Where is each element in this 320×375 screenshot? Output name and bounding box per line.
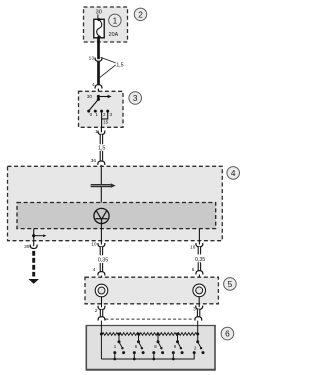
fuse F 20A body (94, 19, 104, 38)
connector 4 (dome) (95, 85, 102, 89)
cable 10 to panel upper (100, 247, 104, 255)
wire into blower motor (100, 167, 102, 209)
contact 3 (106, 110, 109, 113)
fresh air blower box (item 4) (8, 166, 223, 240)
node resistor right end (196, 333, 199, 336)
callout 3 (129, 92, 142, 105)
svg-text:30: 30 (96, 10, 102, 16)
wire into panel left (100, 276, 102, 285)
svg-text:10: 10 (91, 242, 97, 248)
wire connector 4 into switch box (97, 89, 99, 97)
node fuse top (97, 18, 100, 21)
blower motor assembly (inner box) (17, 203, 216, 229)
bulb L left (95, 284, 108, 297)
resistor element zigzag (101, 333, 197, 336)
connector 3 (cup) (196, 306, 203, 310)
contact 2 (100, 110, 103, 113)
series resistor / switch unit box (item 6) (86, 326, 215, 371)
svg-text:15: 15 (103, 120, 109, 126)
svg-text:3: 3 (133, 93, 138, 103)
wire bulb right to exit (198, 297, 200, 308)
ground strap (dashed) (32, 251, 35, 277)
svg-text:1,5: 1,5 (116, 63, 124, 69)
wire right entry to resistor (197, 321, 199, 334)
connector right (dome) into resistor unit (195, 317, 202, 321)
connector left (dome) into resistor unit (98, 317, 105, 321)
svg-text:16: 16 (190, 245, 196, 251)
wire motor output right (198, 229, 200, 245)
motor V2 (fan symbol) (94, 208, 109, 223)
wire stub terminal 30 to fuse (97, 15, 99, 20)
connector 1 (cup) (98, 131, 105, 135)
wire motor output centre (100, 224, 102, 245)
svg-text:2: 2 (95, 308, 98, 314)
svg-text:30: 30 (87, 94, 93, 99)
switch unit 2 (133, 334, 145, 360)
wire connector 36 into blower box (100, 165, 102, 167)
connector 16 (cup) (196, 243, 203, 247)
arrow feed continues (98, 96, 108, 98)
svg-text:1,5: 1,5 (98, 145, 106, 151)
switch unit 4 (172, 334, 184, 360)
wire cable fuse to switch (97, 61, 100, 85)
cable 2 to resistor (100, 310, 104, 318)
callout 5 (224, 278, 237, 291)
svg-text:0,35: 0,35 (98, 258, 108, 264)
svg-text:13: 13 (89, 55, 95, 61)
cable 16 to panel upper (198, 247, 202, 255)
node switch pivot (97, 98, 100, 101)
connector 13 (cup) (95, 57, 102, 61)
svg-text:2: 2 (138, 9, 143, 19)
dashed link line between connectors (106, 318, 195, 320)
switch unit 1 (113, 334, 125, 360)
contact 1 (94, 110, 97, 113)
blower switch box (item 3) (79, 91, 124, 127)
cable switch to blower upper (100, 135, 104, 145)
node tap 1 (118, 333, 121, 336)
fuse holder box (item 1) (84, 7, 128, 42)
cable 16 to panel lower (198, 262, 202, 271)
connector 2 (cup) (98, 306, 105, 310)
node ground branch (32, 234, 35, 237)
bulb L right (193, 284, 206, 297)
connector 36 (dome) (98, 161, 105, 165)
svg-text:4: 4 (93, 267, 96, 273)
ground arrow (28, 279, 39, 284)
callout 2 (134, 8, 146, 20)
switch unit 3 (152, 334, 164, 360)
callout 4 (227, 167, 240, 180)
wire motor ground branch (33, 229, 35, 247)
connector 39 (cup) (30, 245, 37, 249)
node tap 3 (157, 333, 160, 336)
svg-text:3: 3 (110, 112, 113, 117)
connector 4b (dome) (98, 272, 105, 276)
svg-text:36: 36 (91, 158, 97, 164)
cable 10 to panel lower (100, 263, 104, 272)
cable 3 to resistor (197, 309, 201, 317)
svg-text:0,35: 0,35 (195, 257, 205, 263)
svg-text:6: 6 (225, 329, 230, 339)
wire left feed down to bus (100, 334, 102, 359)
wire bulb left to exit (101, 297, 103, 308)
wire left entry to resistor (100, 321, 102, 334)
wire switch output 15 (101, 119, 103, 127)
node fuse bottom (98, 35, 101, 38)
leader lines for wire size (101, 57, 116, 63)
svg-text:4: 4 (231, 168, 236, 178)
bus wire (101, 353, 194, 359)
node tap 2 (137, 333, 140, 336)
control panel illumination box (item 5) (85, 277, 218, 304)
node resistor left end (100, 333, 103, 336)
direction arrow (91, 184, 111, 187)
svg-text:2: 2 (103, 112, 106, 117)
fuse element S-curve (97, 20, 102, 37)
connector 5b (dome) (196, 271, 203, 275)
svg-text:39: 39 (24, 244, 30, 250)
svg-text:5: 5 (228, 279, 233, 289)
svg-text:1: 1 (95, 112, 98, 117)
connector 10 (cup) (98, 243, 105, 247)
svg-text:0: 0 (90, 112, 93, 117)
arrow branch continues (34, 235, 44, 237)
switch lever to position 0 (89, 99, 99, 111)
svg-text:20A: 20A (109, 32, 119, 38)
callout 1 (109, 14, 121, 26)
cable switch to blower lower (100, 151, 104, 162)
contact 0 (87, 110, 90, 113)
node switch 30 (97, 95, 100, 98)
wire link contacts 2 and 3 (102, 111, 108, 119)
wire into panel right (198, 275, 200, 285)
wire fuse to connector 13 (97, 37, 100, 60)
wire switch exit to connector 1 (100, 127, 102, 132)
svg-text:1: 1 (113, 15, 118, 25)
node tap 4 (176, 333, 179, 336)
svg-text:5: 5 (192, 267, 195, 273)
callout 6 (221, 327, 234, 340)
switch unit 5 (193, 334, 205, 354)
